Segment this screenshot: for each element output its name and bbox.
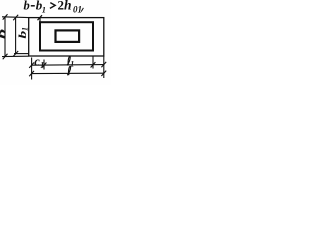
svg-text:b: b — [24, 0, 30, 13]
svg-text:01: 01 — [73, 5, 82, 15]
svg-text:1: 1 — [21, 27, 30, 31]
svg-text:1: 1 — [42, 5, 46, 15]
svg-text:h: h — [64, 0, 72, 13]
svg-text:1: 1 — [40, 61, 44, 70]
svg-text:b: b — [0, 29, 8, 39]
